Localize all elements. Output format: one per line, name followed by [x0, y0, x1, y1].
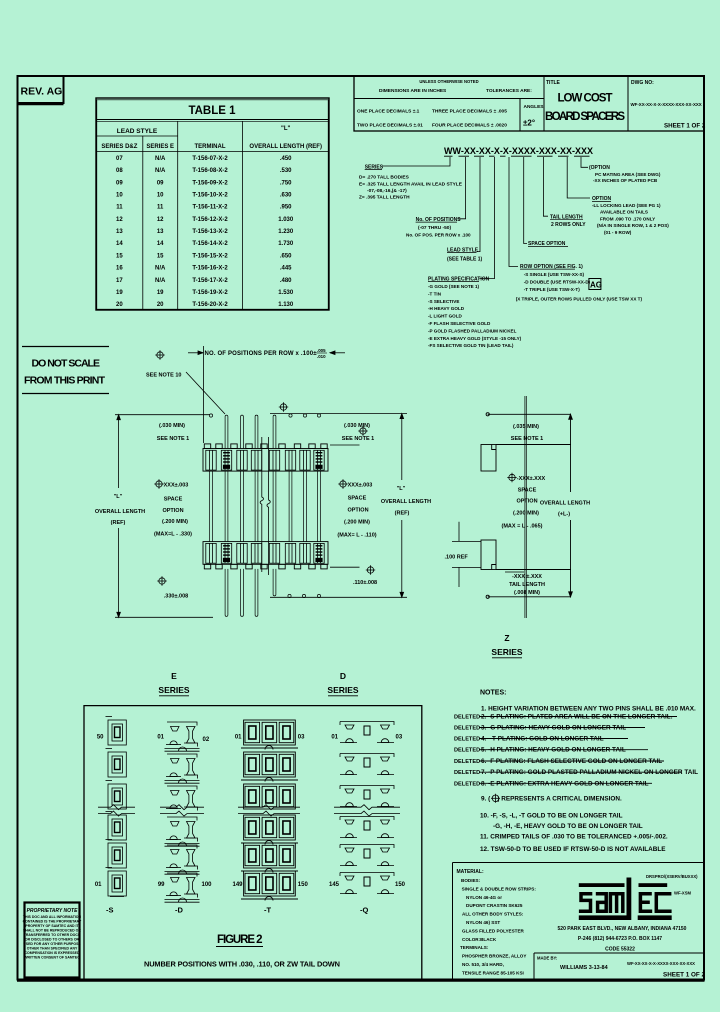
svg-text:SEE NOTE 1: SEE NOTE 1	[511, 436, 543, 442]
svg-text:DELETED: DELETED	[454, 715, 480, 721]
svg-text:T-156-15-X-2: T-156-15-X-2	[192, 253, 228, 259]
samtec logo	[579, 878, 672, 921]
rev box	[18, 76, 64, 104]
svg-text:AG: AG	[590, 281, 602, 290]
svg-text:ANGLES: ANGLES	[524, 104, 545, 110]
svg-text:8. -E PLATING: EXTRA HEAVY GO: 8. -E PLATING: EXTRA HEAVY GOLD ON LONGE…	[481, 780, 649, 787]
svg-text:(SEE TABLE 1): (SEE TABLE 1)	[447, 257, 483, 263]
svg-text:11: 11	[157, 205, 164, 211]
svg-text:(.200 MIN): (.200 MIN)	[162, 519, 188, 525]
svg-text:(.008 MIN): (.008 MIN)	[514, 590, 540, 596]
svg-text:01: 01	[95, 882, 102, 888]
svg-text:NO. 510, 3/4 HARD,: NO. 510, 3/4 HARD,	[462, 962, 504, 967]
E series overall length dimension	[115, 415, 213, 618]
svg-text:.010: .010	[317, 354, 326, 359]
svg-text:.330±.008: .330±.008	[164, 593, 188, 599]
svg-text:(N/A IN SINGLE ROW, 1 & 2 POS): (N/A IN SINGLE ROW, 1 & 2 POS)	[597, 223, 669, 228]
series callout	[359, 164, 669, 348]
svg-text:REV. AG: REV. AG	[21, 86, 63, 98]
svg-text:TAIL LENGTH: TAIL LENGTH	[509, 582, 545, 588]
svg-text:T-156-14-X-2: T-156-14-X-2	[192, 241, 228, 247]
svg-text:10: 10	[116, 193, 123, 199]
svg-text:.480: .480	[280, 278, 292, 284]
svg-text:AVAILABLE ON TAILS: AVAILABLE ON TAILS	[600, 210, 648, 215]
svg-text:FIGURE 2: FIGURE 2	[217, 934, 263, 946]
svg-text:SHALL NOT BE REPRODUCED OR: SHALL NOT BE REPRODUCED OR	[23, 928, 81, 932]
svg-text:FROM .090 TO .170 ONLY: FROM .090 TO .170 ONLY	[600, 216, 655, 221]
svg-text:10. -F, -S, -L, -T GOLD TO BE: 10. -F, -S, -L, -T GOLD TO BE ON LONGER …	[480, 813, 623, 820]
svg-text:N/A: N/A	[155, 156, 166, 162]
svg-text:XXX±.003: XXX±.003	[164, 483, 189, 489]
svg-text:2. -S PLATING: PLATED AREA WI: 2. -S PLATING: PLATED AREA WILL BE ON TH…	[481, 714, 673, 721]
svg-text:-T: -T	[264, 906, 271, 915]
svg-text:DWG NO:: DWG NO:	[631, 80, 654, 86]
figure 2 group -Q pads	[340, 722, 394, 894]
svg-text:SPACE: SPACE	[164, 497, 183, 503]
svg-text:FROM THIS PRINT: FROM THIS PRINT	[24, 375, 106, 387]
svg-text:.630: .630	[280, 193, 292, 199]
svg-text:NYLON 46) SST: NYLON 46) SST	[466, 920, 500, 925]
svg-text:12: 12	[157, 217, 164, 223]
svg-text:Z: Z	[504, 633, 509, 643]
svg-text:03: 03	[396, 735, 403, 741]
series labels	[158, 633, 523, 696]
svg-text:PC MATING AREA (SEE DWG): PC MATING AREA (SEE DWG)	[595, 172, 661, 177]
svg-text:Z= .395 TALL LENGTH: Z= .395 TALL LENGTH	[359, 195, 410, 201]
svg-text:01: 01	[331, 735, 338, 741]
svg-text:XXX±.003: XXX±.003	[348, 483, 373, 489]
svg-text:WRITTEN CONSENT OF SAMTEC: WRITTEN CONSENT OF SAMTEC	[24, 955, 80, 959]
svg-text:SERIES E: SERIES E	[146, 144, 174, 150]
notes area divider	[454, 690, 698, 854]
svg-text:CONTAINED IS THE PROPRIETARY: CONTAINED IS THE PROPRIETARY	[23, 919, 82, 923]
svg-text:-FS SELECTIVE GOLD TIN (LEAD T: -FS SELECTIVE GOLD TIN (LEAD TAIL)	[428, 343, 514, 348]
svg-text:TRANSFERRED TO OTHER DOCS: TRANSFERRED TO OTHER DOCS	[24, 933, 81, 937]
svg-text:OPTION: OPTION	[516, 498, 537, 504]
svg-text:ALL OTHER BODY STYLES:: ALL OTHER BODY STYLES:	[462, 912, 524, 917]
svg-text:T-156-17-X-2: T-156-17-X-2	[192, 278, 228, 284]
svg-text:LEAD STYLE: LEAD STYLE	[117, 128, 158, 135]
svg-text:T-156-09-X-2: T-156-09-X-2	[192, 180, 228, 186]
figure 2 box	[84, 706, 422, 980]
svg-text:OVERALL LENGTH: OVERALL LENGTH	[381, 499, 431, 505]
svg-text:OPTION: OPTION	[162, 508, 183, 514]
figure 2 pin labels	[95, 735, 340, 889]
figure 2 group names	[106, 906, 368, 915]
svg-text:DUPONT CRASTIN SK625: DUPONT CRASTIN SK625	[466, 903, 523, 908]
svg-text:19: 19	[157, 290, 164, 296]
svg-text:TOLERANCES ARE:: TOLERANCES ARE:	[486, 88, 532, 94]
svg-text:(01 - 9 ROW): (01 - 9 ROW)	[604, 230, 632, 235]
svg-text:(.200 MIN): (.200 MIN)	[513, 510, 539, 516]
svg-text:03: 03	[298, 735, 305, 741]
figure 2 group -S pads	[106, 717, 127, 897]
svg-text:OVERALL LENGTH: OVERALL LENGTH	[95, 509, 145, 515]
svg-text:OVERALL LENGTH: OVERALL LENGTH	[540, 501, 590, 507]
svg-text:"L": "L"	[281, 126, 291, 132]
svg-text:D= .270 TALL BODIES: D= .270 TALL BODIES	[359, 175, 410, 181]
svg-text:T-156-19-X-2: T-156-19-X-2	[192, 290, 228, 296]
svg-text:No. OF POS. PER ROW x .100: No. OF POS. PER ROW x .100	[406, 233, 471, 238]
svg-text:D: D	[340, 671, 346, 681]
svg-text:LOW COST: LOW COST	[558, 93, 613, 105]
svg-text:SPACE: SPACE	[518, 487, 537, 493]
svg-text:5. -H PLATING: HEAVY GOLD ON: 5. -H PLATING: HEAVY GOLD ON LONGER TAIL	[481, 747, 626, 754]
svg-text:T-156-10-X-2: T-156-10-X-2	[192, 193, 228, 199]
svg-text:CODE 55322: CODE 55322	[605, 947, 635, 953]
svg-text:14: 14	[157, 241, 164, 247]
svg-text:E= .325 TALL LENGTH AVAIL IN L: E= .325 TALL LENGTH AVAIL IN LEAD STYLE	[359, 182, 463, 188]
figure 2 group -D pads	[165, 722, 200, 902]
svg-text:-Q: -Q	[360, 906, 368, 915]
E series tail dim	[157, 576, 166, 585]
svg-text:SEE NOTE 10: SEE NOTE 10	[146, 373, 181, 379]
svg-text:99: 99	[158, 882, 165, 888]
svg-text:-XXX±.XXX: -XXX±.XXX	[517, 476, 546, 482]
svg-text:BOARD SPACERS: BOARD SPACERS	[545, 111, 625, 123]
svg-text:9. ( ) REPRESENTS A CRITICA: 9. ( ) REPRESENTS A CRITICAL DIMENSION.	[481, 796, 622, 803]
svg-text:(.200 MIN): (.200 MIN)	[344, 519, 370, 525]
header body row 2	[203, 542, 328, 569]
svg-text:-T TRIPLE (USE TSW-X-T): -T TRIPLE (USE TSW-X-T)	[524, 287, 581, 292]
svg-text:.530: .530	[280, 168, 292, 174]
svg-text:DO NOT SCALE: DO NOT SCALE	[32, 358, 101, 370]
svg-text:SEE NOTE 1: SEE NOTE 1	[342, 436, 374, 442]
pin stubs above body	[209, 414, 320, 449]
svg-text:14: 14	[116, 241, 123, 247]
svg-text:DELETED: DELETED	[454, 737, 480, 743]
svg-text:DELETED: DELETED	[454, 726, 480, 732]
svg-text:16: 16	[116, 266, 123, 272]
svg-text:-S SINGLE (USE TSW-XX-S): -S SINGLE (USE TSW-XX-S)	[524, 272, 585, 277]
svg-text:-S: -S	[106, 906, 114, 915]
svg-text:OR DISCLOSED TO OTHERS OR: OR DISCLOSED TO OTHERS OR	[25, 937, 80, 941]
svg-text:OTHER THAN SPECIFIED ANY: OTHER THAN SPECIFIED ANY	[27, 946, 78, 950]
svg-text:-07,-08,-16,(& -17): -07,-08,-16,(& -17)	[367, 188, 407, 194]
svg-text:T-156-16-X-2: T-156-16-X-2	[192, 266, 228, 272]
svg-text:OPTION: OPTION	[347, 507, 368, 513]
svg-text:1.530: 1.530	[278, 290, 294, 296]
svg-text:PROPERTY OF SAMTEC AND IT: PROPERTY OF SAMTEC AND IT	[25, 924, 79, 928]
pin tails below body	[225, 569, 321, 617]
svg-text:T-156-07-X-2: T-156-07-X-2	[192, 156, 228, 162]
svg-text:WF-XSM: WF-XSM	[674, 891, 691, 896]
svg-text:3. -G PLATING: HEAVY GOLD ON: 3. -G PLATING: HEAVY GOLD ON LONGER TAIL	[481, 725, 626, 732]
svg-text:-G GOLD (SEE NOTE 1): -G GOLD (SEE NOTE 1)	[428, 284, 480, 289]
svg-text:19: 19	[116, 290, 123, 296]
callout leader lines	[383, 157, 590, 279]
svg-text:DELETED: DELETED	[454, 770, 480, 776]
svg-text:NUMBER POSITIONS WITH .030, .1: NUMBER POSITIONS WITH .030, .110, OR ZW …	[144, 960, 340, 969]
svg-text:E: E	[171, 671, 177, 681]
figure 2 break lines	[98, 805, 400, 816]
top dimension: no of positions	[155, 350, 164, 359]
svg-text:20: 20	[116, 302, 123, 308]
centre break lines with S marks	[260, 437, 270, 575]
svg-text:(.035 MIN): (.035 MIN)	[513, 424, 539, 430]
svg-text:SERIES: SERIES	[158, 685, 190, 695]
svg-text:2 ROWS ONLY: 2 ROWS ONLY	[551, 222, 586, 228]
svg-text:1.030: 1.030	[278, 217, 294, 223]
svg-text:13: 13	[116, 229, 123, 235]
svg-text:SPACE: SPACE	[348, 496, 367, 502]
svg-text:4. - T PLATING: GOLD ON LONGE: 4. - T PLATING: GOLD ON LONGER TAIL	[481, 736, 604, 743]
svg-text:DELETED: DELETED	[454, 759, 480, 765]
svg-text:SERIES D&Z: SERIES D&Z	[101, 144, 137, 150]
svg-text:-H HEAVY GOLD: -H HEAVY GOLD	[428, 306, 465, 311]
svg-text:P-246 (812) 944-6723 P.O. BO: P-246 (812) 944-6723 P.O. BOX 1147	[578, 936, 662, 942]
svg-text:GLASS FILLED POLYESTER: GLASS FILLED POLYESTER	[462, 928, 525, 933]
svg-text:-P GOLD FLASHED PALLADIUM NICK: -P GOLD FLASHED PALLADIUM NICKEL	[428, 328, 517, 333]
svg-text:MATERIAL:: MATERIAL:	[457, 869, 484, 875]
svg-text:(MAX=L - .330): (MAX=L - .330)	[154, 531, 192, 537]
svg-text:(REF): (REF)	[395, 511, 410, 517]
svg-text:-G, -H, -E, HEAVY GOLD TO BE O: -G, -H, -E, HEAVY GOLD TO BE ON LONGER T…	[493, 823, 643, 830]
svg-text:-XX INCHES OF PLATED PCB: -XX INCHES OF PLATED PCB	[593, 178, 658, 183]
svg-text:MADE BY:: MADE BY:	[537, 956, 557, 961]
svg-text:.450: .450	[280, 156, 292, 162]
svg-text:01: 01	[157, 735, 164, 741]
svg-text:TITLE: TITLE	[546, 80, 561, 86]
svg-text:6. -F PLATING: FLASH SELECTIV: 6. -F PLATING: FLASH SELECTIVE GOLD ON L…	[481, 758, 662, 765]
svg-text:(REF): (REF)	[111, 520, 126, 526]
Z series drawing	[481, 396, 572, 618]
svg-text:T-156-13-X-2: T-156-13-X-2	[192, 229, 228, 235]
svg-text:SERIES: SERIES	[491, 647, 523, 657]
svg-text:07: 07	[116, 156, 123, 162]
svg-text:DRSPRO/(XSERV/BUXXX): DRSPRO/(XSERV/BUXXX)	[646, 874, 698, 879]
svg-text:-E EXTRA HEAVY GOLD (STYLE -15: -E EXTRA HEAVY GOLD (STYLE -15 ONLY)	[428, 336, 522, 341]
svg-text:08: 08	[116, 168, 123, 174]
svg-text:-LL LOCKING LEAD (SEE PG 1): -LL LOCKING LEAD (SEE PG 1)	[592, 203, 661, 208]
svg-text:SHEET 1 OF 2: SHEET 1 OF 2	[664, 123, 706, 130]
svg-text:13: 13	[157, 229, 164, 235]
svg-text:.100 REF: .100 REF	[445, 554, 469, 560]
header body row 1	[203, 444, 328, 471]
svg-text:T-156-20-X-2: T-156-20-X-2	[192, 302, 228, 308]
svg-text:T-156-11-X-2: T-156-11-X-2	[192, 205, 228, 211]
svg-text:TABLE 1: TABLE 1	[188, 105, 236, 117]
svg-text:-F FLASH SELECTIVE GOLD: -F FLASH SELECTIVE GOLD	[428, 321, 491, 326]
svg-text:WF-XX-XX-X-X-XXXX-XXX-XX-XXX: WF-XX-XX-X-X-XXXX-XXX-XX-XXX	[631, 102, 702, 107]
svg-text:N/A: N/A	[155, 278, 166, 284]
E series space option label	[154, 479, 163, 488]
svg-text:09: 09	[157, 180, 164, 186]
svg-text:01: 01	[235, 735, 242, 741]
svg-text:SHEET 1 OF 2: SHEET 1 OF 2	[663, 972, 705, 979]
svg-text:1. HEIGHT VARIATION BETWEEN AN: 1. HEIGHT VARIATION BETWEEN ANY TWO PINS…	[481, 706, 696, 713]
svg-text:15: 15	[116, 253, 123, 259]
svg-text:-D DOUBLE (USE RTSW-XX-D): -D DOUBLE (USE RTSW-XX-D)	[524, 280, 591, 285]
table 1	[96, 98, 329, 310]
do not scale note	[22, 347, 109, 394]
svg-text:145: 145	[329, 882, 340, 888]
svg-text:DELETED: DELETED	[454, 781, 480, 787]
svg-text:11: 11	[116, 205, 123, 211]
svg-text:THIS DOC AND ALL INFORMATION: THIS DOC AND ALL INFORMATION	[23, 915, 82, 919]
svg-text:09: 09	[116, 180, 123, 186]
svg-text:12: 12	[116, 217, 123, 223]
svg-text:02: 02	[203, 737, 210, 743]
svg-text:ONE PLACE DECIMALS ±.1: ONE PLACE DECIMALS ±.1	[357, 109, 420, 115]
samtec letters	[579, 894, 672, 913]
svg-text:DELETED: DELETED	[454, 748, 480, 754]
svg-text:UNLESS OTHERWISE NOTED: UNLESS OTHERWISE NOTED	[419, 79, 478, 84]
svg-text:520 PARK EAST BLVD., NEW ALBA: 520 PARK EAST BLVD., NEW ALBANY, INDIANA…	[558, 926, 687, 932]
svg-text:12. TSW-50-D TO BE USED IF RTS: 12. TSW-50-D TO BE USED IF RTSW-50-D IS …	[480, 846, 666, 853]
svg-text:NYLON 46-4G or: NYLON 46-4G or	[466, 895, 502, 900]
svg-text:-D: -D	[175, 906, 183, 915]
svg-text:SERIES: SERIES	[327, 685, 359, 695]
svg-text:BODIES:: BODIES:	[461, 878, 481, 883]
figure 2 group -T pads	[241, 720, 298, 901]
tail length labels	[505, 571, 524, 573]
svg-text:(.030 MIN): (.030 MIN)	[159, 423, 185, 429]
svg-text:(MAX = L - .065): (MAX = L - .065)	[501, 523, 542, 529]
svg-text:7. -P PLATING: GOLD PLASTED P: 7. -P PLATING: GOLD PLASTED PALLADIUM NI…	[481, 769, 698, 776]
svg-text:OVERALL LENGTH (REF): OVERALL LENGTH (REF)	[249, 144, 322, 150]
svg-text:(MAX= L - .110): (MAX= L - .110)	[337, 533, 376, 539]
socket cavities and pins inside bodies	[206, 450, 324, 563]
svg-text:T-156-08-X-2: T-156-08-X-2	[192, 168, 228, 174]
svg-text:"L": "L"	[114, 494, 123, 500]
svg-text:.650: .650	[280, 253, 292, 259]
top title block	[354, 76, 704, 131]
svg-text:20: 20	[157, 302, 164, 308]
address lines	[558, 926, 687, 953]
svg-text:1.730: 1.730	[278, 241, 294, 247]
svg-text:50: 50	[97, 735, 104, 741]
D series dimensions	[270, 414, 407, 598]
svg-text:15: 15	[157, 253, 164, 259]
svg-text:149: 149	[232, 882, 243, 888]
svg-text:.950: .950	[280, 205, 292, 211]
svg-text:11. CRIMPED TAILS OF .030 TO B: 11. CRIMPED TAILS OF .030 TO BE TOLERANC…	[480, 834, 668, 841]
svg-text:DIMENSIONS ARE IN INCHES: DIMENSIONS ARE IN INCHES	[379, 88, 447, 94]
svg-text:100: 100	[202, 882, 213, 888]
.100 REF dim	[452, 522, 481, 587]
svg-text:THREE PLACE DECIMALS ± .005: THREE PLACE DECIMALS ± .005	[432, 109, 507, 115]
svg-text:"L": "L"	[397, 486, 406, 492]
svg-text:(.030 MIN): (.030 MIN)	[344, 423, 370, 429]
svg-text:.005: .005	[317, 348, 326, 353]
svg-text:COMPENSATION IS EXPRESSED: COMPENSATION IS EXPRESSED	[25, 951, 80, 955]
AG revision box	[589, 279, 601, 290]
svg-text:1.130: 1.130	[278, 302, 294, 308]
svg-text:(X TRIPLE, OUTER ROWS PULLED O: (X TRIPLE, OUTER ROWS PULLED ONLY (USE T…	[516, 297, 643, 302]
svg-text:WF-XX-XX-X-X-XXXX-XXX-XX-XXX: WF-XX-XX-X-X-XXXX-XXX-XX-XXX	[627, 961, 695, 966]
svg-text:TERMINAL: TERMINAL	[195, 144, 226, 150]
svg-text:PROPRIETARY NOTE: PROPRIETARY NOTE	[27, 908, 79, 914]
svg-text:WILLIAMS 3-13-84: WILLIAMS 3-13-84	[560, 965, 609, 971]
svg-text:-L LIGHT GOLD: -L LIGHT GOLD	[428, 314, 463, 319]
svg-text:COLOR:BLACK: COLOR:BLACK	[462, 937, 497, 942]
svg-text:USED FOR ANY OTHER PURPOSE: USED FOR ANY OTHER PURPOSE	[23, 942, 81, 946]
svg-text:SEE NOTE 1: SEE NOTE 1	[157, 436, 189, 442]
part number breakdown	[444, 146, 593, 156]
svg-text:N/A: N/A	[155, 168, 166, 174]
svg-text:(OPTION: (OPTION	[589, 165, 610, 171]
part number underlines	[444, 155, 590, 157]
svg-text:150: 150	[395, 882, 406, 888]
svg-text:-XXX ±.XXX: -XXX ±.XXX	[512, 574, 542, 580]
svg-text:1.230: 1.230	[278, 229, 294, 235]
svg-text:.445: .445	[280, 266, 292, 272]
svg-text:PHOSPHER BRONZE, ALLOY: PHOSPHER BRONZE, ALLOY	[462, 954, 526, 959]
svg-text:150: 150	[298, 882, 309, 888]
svg-text:T-156-12-X-2: T-156-12-X-2	[192, 217, 228, 223]
proprietary note box	[25, 903, 80, 978]
svg-text:TERMINALS:: TERMINALS:	[460, 945, 489, 950]
pins between bodies	[210, 471, 321, 541]
svg-text:FOUR PLACE DECIMALS ± .0020: FOUR PLACE DECIMALS ± .0020	[432, 123, 507, 129]
svg-text:WW-XX-XX-X-X-XXXX-XXX-XX-XXX: WW-XX-XX-X-X-XXXX-XXX-XX-XXX	[444, 146, 593, 156]
svg-text:N/A: N/A	[155, 266, 166, 272]
svg-text:.750: .750	[280, 180, 292, 186]
svg-text:(-07 THRU -50): (-07 THRU -50)	[418, 225, 451, 231]
svg-text:-T TIN: -T TIN	[428, 291, 442, 296]
svg-text:10: 10	[157, 193, 164, 199]
svg-text:NOTES:: NOTES:	[480, 690, 506, 697]
svg-text:NO. OF POSITIONS PER ROW x .10: NO. OF POSITIONS PER ROW x .100±	[205, 351, 318, 357]
svg-text:-S SELECTIVE: -S SELECTIVE	[428, 299, 459, 304]
bottom title block	[453, 863, 705, 981]
svg-text:TWO PLACE DECIMALS ±.01: TWO PLACE DECIMALS ±.01	[357, 123, 423, 129]
svg-text:TENSILE RANGE 85-105 KSI: TENSILE RANGE 85-105 KSI	[462, 970, 524, 975]
svg-text:±2°: ±2°	[523, 119, 535, 128]
svg-text:17: 17	[116, 278, 123, 284]
svg-text:SINGLE & DOUBLE ROW STRIPS:: SINGLE & DOUBLE ROW STRIPS:	[462, 886, 537, 891]
svg-text:.110±.008: .110±.008	[353, 580, 377, 586]
svg-text:(+L-): (+L-)	[558, 512, 570, 518]
